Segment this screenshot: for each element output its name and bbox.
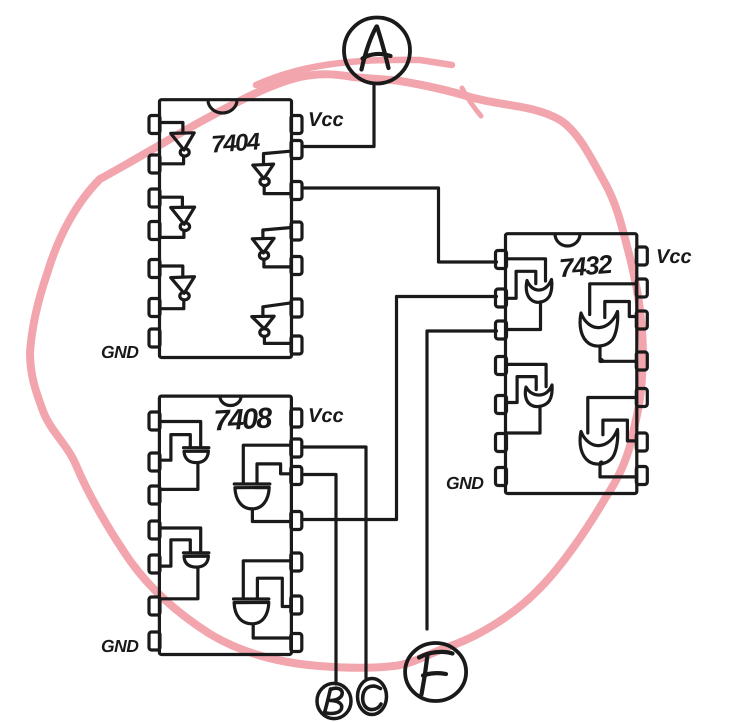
wire 7404 pin 12 to 7432 pin 1 [303, 188, 497, 262]
7432 pin 9 [636, 433, 647, 451]
7432 pin 8 [636, 467, 647, 485]
wire 7408 pin 12 to node B [302, 475, 336, 685]
svg-text:Vcc: Vcc [656, 246, 692, 268]
wire 7408 pin 13 to node C [302, 447, 366, 678]
7408 notch [220, 397, 241, 406]
7404 pin 1 [149, 116, 160, 134]
7408 pin 7 GND [149, 632, 160, 650]
7404 pin 11 [291, 222, 302, 240]
AND gate 1 (pins 1,2 -> 3) [161, 422, 201, 447]
svg-text:GND: GND [101, 342, 139, 362]
7408 pin 12 [291, 467, 302, 485]
wire 7432 pin 2 to 7408 pin 11 [302, 297, 496, 520]
7432 pin 2 [496, 289, 507, 307]
svg-text:Vcc: Vcc [308, 109, 344, 131]
AND gate 4 (pins 10,9 -> 8) [243, 561, 290, 598]
node C [358, 679, 387, 715]
7432 pin 11 [636, 352, 647, 370]
OR gate 4 (pins 10,9 -> 8) [588, 398, 636, 434]
wire 7432 pin 3 to node F [427, 331, 497, 629]
OR gate 2 (pins 13,12 -> 11) [590, 284, 636, 315]
7432 pin 3 [496, 321, 507, 339]
pink overlap stroke [256, 60, 452, 85]
7432 pin 13 [636, 279, 647, 297]
inverter gate 6 (pins 9-8) [263, 303, 291, 316]
svg-text:GND: GND [101, 636, 139, 656]
AND gate 3 (pins 4,5 -> 6) [161, 528, 201, 552]
7432 pin 12 [636, 311, 647, 329]
svg-text:Vcc: Vcc [308, 405, 344, 427]
OR gate 3 (pins 4,5 -> 6) [506, 364, 546, 386]
7404 pin 7 GND [149, 329, 160, 347]
node F [405, 643, 466, 701]
7408 pin 6 [149, 597, 160, 615]
7408 pin 11 [291, 512, 302, 530]
node B [317, 683, 351, 718]
7408 pin 8 [291, 634, 302, 652]
inverter gate 1 (pins 1-2) [161, 123, 183, 134]
7404 pin 14 Vcc [291, 116, 302, 134]
7404 pin 9 [291, 299, 302, 317]
7432 pin 6 [496, 434, 507, 452]
pink tail stroke [462, 88, 481, 116]
highlight ellipse (pink marker loop) [30, 60, 643, 668]
7404 pin 6 [149, 299, 160, 317]
svg-text:7408: 7408 [213, 402, 274, 437]
svg-text:7432: 7432 [558, 249, 614, 284]
OR gate 1 (pins 1,2 -> 3) [506, 259, 545, 281]
7408 pin 4 [149, 521, 160, 539]
inverter gate 2 (pins 3-4) [161, 197, 183, 207]
AND gate 2 (pins 13,12 -> 11) [243, 445, 290, 483]
7404 pin 3 [149, 189, 160, 207]
7432 pin 4 [496, 357, 507, 375]
7408 pin 10 [291, 553, 302, 571]
7408 pin 13 [291, 439, 302, 457]
wire node A to 7404 pin 13 [303, 84, 375, 147]
7408 pin 3 [149, 486, 160, 504]
7408 pin 14 Vcc [291, 409, 302, 427]
IC 7408 body [159, 396, 291, 654]
7408 pin 1 [149, 412, 160, 430]
7408 pin 5 [149, 555, 160, 573]
inverter gate 4 (pins 13-12) [264, 151, 291, 164]
7432 pin 5 [496, 396, 507, 414]
7432 notch [555, 234, 580, 246]
7404 pin 5 [149, 260, 160, 278]
7408 pin 2 [149, 453, 160, 471]
inverter gate 5 (pins 11-10) [263, 228, 290, 239]
7404 pin 13 [291, 141, 302, 159]
7432 pin 14 Vcc [636, 247, 647, 265]
7404 pin 4 [149, 222, 160, 240]
7404 pin 10 [291, 257, 302, 275]
IC 7432 body [506, 234, 637, 494]
svg-text:GND: GND [446, 473, 484, 493]
7432 pin 7 GND [496, 468, 507, 486]
7404 pin 2 [149, 155, 160, 173]
7432 pin 10 [636, 389, 647, 407]
7404 pin 12 [291, 182, 302, 200]
node A [344, 18, 410, 84]
inverter gate 3 (pins 5-6) [161, 266, 183, 277]
7404 notch [208, 100, 237, 113]
7432 pin 1 [496, 251, 507, 269]
7404 pin 8 [291, 336, 302, 354]
IC 7404 body [160, 100, 292, 358]
7408 pin 9 [291, 596, 302, 614]
svg-text:7404: 7404 [210, 128, 260, 158]
